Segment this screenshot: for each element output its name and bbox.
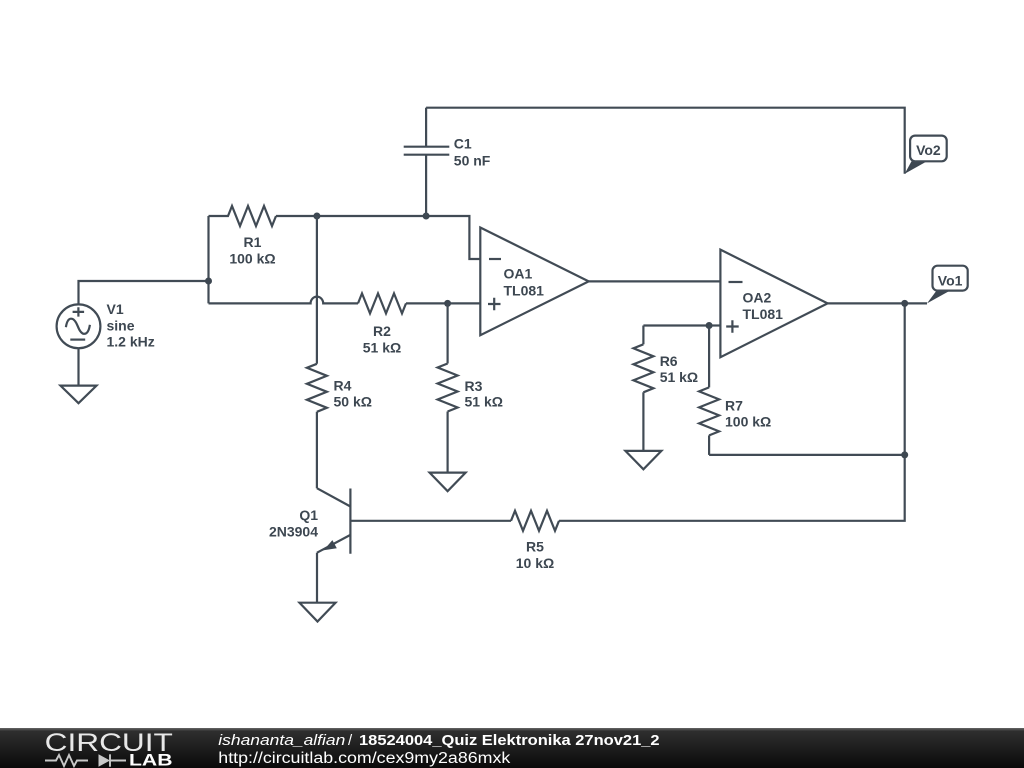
svg-text:R6: R6 (660, 353, 678, 369)
svg-text:R5: R5 (526, 538, 544, 554)
svg-text:http://circuitlab.com/cex9my2a: http://circuitlab.com/cex9my2a86mxk (218, 750, 510, 767)
wire V1 bottom to ground (77, 348, 79, 385)
voltage source V1 (57, 301, 155, 350)
wire R4 to Q1 collector (316, 412, 318, 488)
wire node to OA2 plus input (709, 324, 720, 326)
svg-text:1.2 kHz: 1.2 kHz (107, 334, 155, 350)
resistor R6 (633, 326, 698, 451)
svg-text:R1: R1 (244, 234, 262, 250)
junction R7 / right rail (901, 451, 908, 458)
junction V1 / left rail (205, 278, 212, 285)
svg-text:TL081: TL081 (743, 306, 784, 322)
ground for V1 (61, 386, 97, 404)
CircuitLab logo resistor-diode glyph (45, 754, 126, 766)
wire left rail vertical (207, 216, 209, 303)
resistor R4 (307, 364, 372, 412)
wire OA2 output to Vo1 (828, 302, 927, 304)
svg-text:51 kΩ: 51 kΩ (660, 369, 698, 385)
junction R1 right node (313, 213, 320, 220)
svg-text:sine: sine (107, 317, 135, 333)
svg-text:V1: V1 (107, 301, 124, 317)
wire left rail to R2 (hop over collector wire) (209, 297, 359, 304)
wire R6 to OA2 plus node (643, 324, 709, 326)
wire Q1 base to R5 (350, 520, 511, 522)
svg-text:100 kΩ: 100 kΩ (725, 414, 771, 430)
resistor R5 (511, 511, 559, 571)
wire R7 bottom to right rail (709, 454, 905, 456)
ground for R6 (625, 451, 661, 469)
ground for R3 (430, 473, 466, 492)
op-amp OA2 (720, 250, 827, 358)
wire C1 top to Vo2 (426, 108, 905, 174)
svg-text:OA2: OA2 (743, 290, 772, 306)
resistor R3 (438, 303, 503, 472)
svg-text:R3: R3 (465, 378, 483, 394)
junction OA2 plus node (706, 322, 713, 329)
wire node to OA1 plus input (448, 302, 481, 304)
svg-text:LAB: LAB (129, 751, 173, 768)
resistor R2 (358, 293, 448, 355)
svg-text:18524004_Quiz Elektronika 27no: 18524004_Quiz Elektronika 27nov21_2 (359, 732, 660, 749)
svg-text:Vo2: Vo2 (916, 142, 941, 158)
svg-text:TL081: TL081 (504, 282, 545, 298)
wire Q1 emitter to ground (316, 553, 318, 603)
capacitor C1 (404, 108, 491, 216)
svg-text:R4: R4 (334, 378, 352, 394)
svg-text:R2: R2 (373, 323, 391, 339)
wire R1 node to OA1 minus input (317, 216, 480, 259)
net flag Vo1 (927, 266, 968, 304)
svg-text:R7: R7 (725, 397, 743, 413)
svg-text:ishananta_alfian: ishananta_alfian (218, 732, 345, 749)
wire R1 node down to R4 (316, 216, 318, 364)
svg-text:51 kΩ: 51 kΩ (363, 340, 401, 356)
wire OA1 output to OA2 minus input (589, 280, 721, 283)
svg-text:51 kΩ: 51 kΩ (465, 394, 503, 410)
svg-text:50 nF: 50 nF (454, 152, 491, 168)
junction R2 / R3 node (444, 300, 451, 307)
wire V1 top to left rail (79, 281, 209, 304)
resistor R7 (699, 326, 771, 455)
svg-text:100 kΩ: 100 kΩ (229, 251, 275, 267)
resistor R1 (209, 206, 317, 267)
svg-text:C1: C1 (454, 136, 472, 152)
svg-text:Vo1: Vo1 (938, 273, 963, 289)
junction Vo1 node (901, 300, 908, 307)
junction C1 bottom node (423, 213, 430, 220)
svg-text:10 kΩ: 10 kΩ (516, 555, 554, 571)
svg-text:50 kΩ: 50 kΩ (334, 393, 372, 409)
op-amp OA1 (480, 228, 588, 336)
svg-text:2N3904: 2N3904 (269, 524, 318, 540)
svg-text:Q1: Q1 (299, 507, 318, 523)
wire R5 to right rail (559, 303, 905, 520)
transistor Q1 (269, 488, 350, 554)
svg-text:OA1: OA1 (504, 266, 533, 282)
ground for Q1 (300, 603, 336, 622)
net flag Vo2 (905, 136, 947, 174)
